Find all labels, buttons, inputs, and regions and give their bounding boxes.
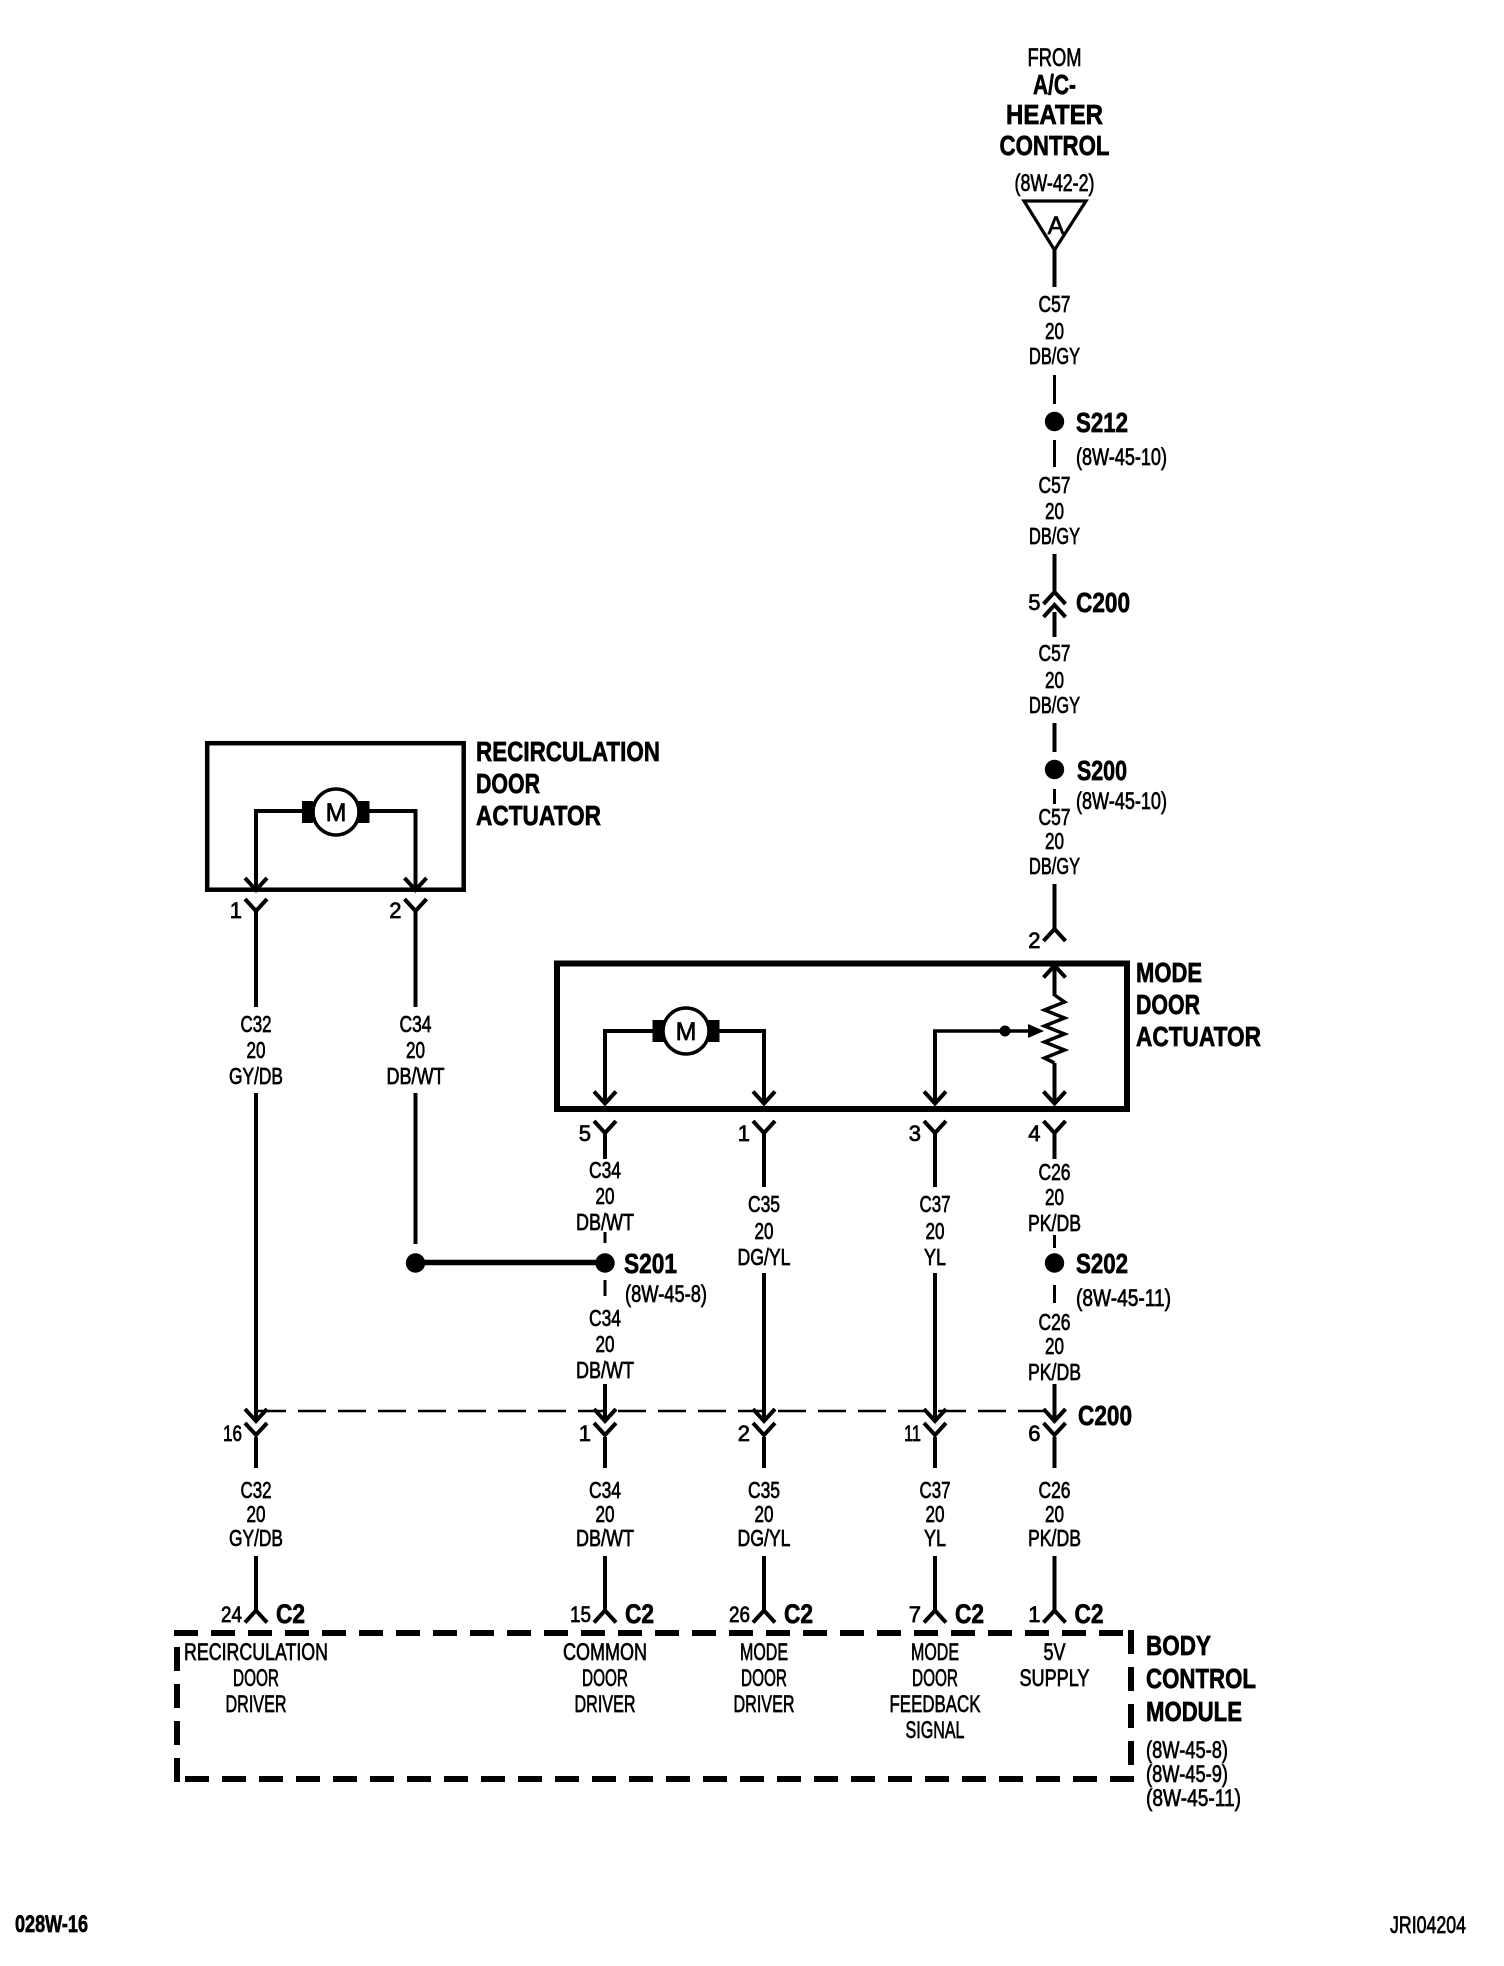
wire C37 down to C200 [933, 1273, 937, 1421]
wire below C200 pin 16 [254, 1437, 258, 1468]
junction dot on wiper [1000, 1026, 1011, 1037]
svg-text:6: 6 [1028, 1421, 1040, 1446]
svg-text:CONTROL: CONTROL [1146, 1663, 1256, 1694]
svg-text:DG/YL: DG/YL [738, 1525, 791, 1551]
svg-text:A: A [1048, 212, 1065, 240]
svg-text:C34: C34 [589, 1157, 621, 1183]
wire C26 down to C200 [1053, 1384, 1057, 1421]
svg-text:YL: YL [924, 1525, 946, 1551]
svg-text:(8W-45-9): (8W-45-9) [1146, 1761, 1228, 1788]
fork stem pin 5 [603, 1133, 607, 1159]
svg-text:RECIRCULATION: RECIRCULATION [476, 736, 660, 767]
junction dot on C34 jumper [406, 1253, 425, 1272]
svg-text:A/C-: A/C- [1033, 69, 1076, 100]
svg-text:DRIVER: DRIVER [575, 1691, 636, 1718]
fork stem pin 4 [1053, 1133, 1057, 1159]
svg-text:1: 1 [230, 898, 242, 923]
svg-text:C57: C57 [1039, 472, 1071, 498]
svg-text:20: 20 [1045, 667, 1064, 693]
svg-text:DB/WT: DB/WT [387, 1063, 445, 1089]
svg-text:SUPPLY: SUPPLY [1020, 1665, 1090, 1692]
connector fork below box pin 2 [405, 899, 427, 911]
svg-text:S200: S200 [1077, 755, 1127, 786]
svg-text:C32: C32 [241, 1011, 272, 1037]
svg-text:C2: C2 [955, 1599, 984, 1629]
connector fork below mode box pin 4 [1044, 1121, 1066, 1133]
svg-text:20: 20 [1045, 828, 1064, 854]
wire down to connector C200 pin 5 [1053, 554, 1057, 592]
svg-text:MODE: MODE [911, 1639, 959, 1666]
wire dash below S200 [1053, 789, 1056, 804]
svg-text:YL: YL [924, 1244, 946, 1270]
motor M1 left brush [302, 801, 313, 823]
motor M2 circle (mode) [663, 1008, 709, 1054]
svg-text:26: 26 [729, 1602, 750, 1627]
connector C200 double chevron pin 6 [1044, 1409, 1066, 1421]
splice S200 [1045, 760, 1064, 779]
wire from triangle A down [1053, 250, 1057, 287]
arrow at box edge pin 4 [1044, 1092, 1066, 1104]
wire pin 2 down inside box [414, 811, 418, 888]
wire pin 1 down inside box [762, 1031, 766, 1101]
svg-text:GY/DB: GY/DB [229, 1525, 283, 1551]
wiper arrowhead [1028, 1024, 1044, 1038]
wire dash above S201 [604, 1232, 607, 1243]
svg-text:(8W-45-11): (8W-45-11) [1146, 1785, 1241, 1812]
svg-text:20: 20 [596, 1501, 615, 1527]
svg-text:2: 2 [738, 1421, 750, 1446]
svg-text:C35: C35 [748, 1477, 780, 1503]
body control module dashed box [174, 1630, 1134, 1636]
connector C2 fork pin 7 [924, 1611, 946, 1623]
connector C200 double chevron pin 2 [753, 1409, 775, 1421]
mode door actuator box [557, 964, 1127, 1110]
svg-text:DRIVER: DRIVER [734, 1691, 795, 1718]
svg-text:PK/DB: PK/DB [1028, 1525, 1081, 1551]
connector C200 pin 5 double chevron [1044, 592, 1066, 604]
svg-text:20: 20 [247, 1501, 266, 1527]
wire below C200 pin 2 [762, 1437, 766, 1468]
wire pin 2 to potentiometer [1053, 966, 1057, 997]
svg-text:3: 3 [909, 1121, 921, 1146]
connector C2 fork pin 26 [753, 1611, 775, 1623]
wire C32 down to BCM C2 [254, 1556, 258, 1611]
splice S201 [595, 1253, 614, 1272]
svg-text:C35: C35 [748, 1191, 780, 1217]
fork stem pin 3 [933, 1133, 937, 1187]
svg-text:DB/WT: DB/WT [576, 1209, 634, 1235]
svg-text:C34: C34 [589, 1305, 621, 1331]
svg-text:S201: S201 [624, 1248, 677, 1279]
svg-text:20: 20 [1045, 498, 1064, 524]
connector C2 fork pin 24 [245, 1611, 267, 1623]
svg-text:GY/DB: GY/DB [229, 1063, 283, 1089]
potentiometer wiper wire [933, 1029, 1030, 1033]
svg-text:(8W-45-8): (8W-45-8) [1146, 1737, 1228, 1764]
svg-text:DB/WT: DB/WT [576, 1525, 634, 1551]
svg-text:20: 20 [1045, 1333, 1064, 1359]
svg-text:CONTROL: CONTROL [1000, 130, 1110, 161]
svg-text:ACTUATOR: ACTUATOR [476, 800, 601, 831]
connector C200 dashed line [258, 1410, 1055, 1413]
off-page connector triangle A [1024, 201, 1086, 250]
svg-text:DB/GY: DB/GY [1029, 523, 1080, 549]
svg-text:5V: 5V [1044, 1639, 1066, 1666]
svg-text:DB/WT: DB/WT [576, 1357, 634, 1383]
svg-text:20: 20 [596, 1183, 615, 1209]
svg-text:C2: C2 [1075, 1599, 1104, 1629]
wire C34 down to junction with S201 jumper [414, 1093, 418, 1244]
wire dash below S201 [604, 1280, 607, 1296]
svg-text:(8W-45-11): (8W-45-11) [1076, 1285, 1171, 1312]
svg-text:ACTUATOR: ACTUATOR [1136, 1021, 1261, 1052]
svg-text:FEEDBACK: FEEDBACK [890, 1691, 981, 1718]
wire dash below S202 [1053, 1285, 1056, 1303]
svg-text:16: 16 [223, 1421, 242, 1446]
svg-text:C200: C200 [1078, 1400, 1132, 1431]
svg-text:(8W-45-10): (8W-45-10) [1076, 444, 1167, 471]
svg-text:20: 20 [1045, 318, 1064, 344]
svg-text:DOOR: DOOR [476, 768, 540, 799]
wire motor M2 right brush to pin 1 [719, 1029, 767, 1033]
motor M2 right brush [709, 1020, 720, 1042]
svg-text:20: 20 [926, 1501, 945, 1527]
svg-text:1: 1 [1028, 1602, 1040, 1627]
svg-text:C57: C57 [1039, 804, 1071, 830]
arrow at box edge pin 5 [594, 1092, 616, 1104]
wire C35 down to C200 [762, 1273, 766, 1421]
svg-text:C32: C32 [241, 1477, 272, 1503]
wire motor M1 right brush to pin 2 [369, 809, 418, 813]
connector C200 double chevron pin 11 [924, 1409, 946, 1421]
svg-text:11: 11 [904, 1421, 921, 1446]
svg-text:(8W-42-2): (8W-42-2) [1015, 170, 1095, 197]
connector C200 double chevron pin 1 [594, 1409, 616, 1421]
svg-text:MODE: MODE [1136, 957, 1202, 988]
svg-text:FROM: FROM [1028, 44, 1082, 72]
wire dash above S202 [1053, 1235, 1056, 1248]
splice S212 [1045, 412, 1064, 431]
jumper wire to S201 [416, 1260, 606, 1266]
fork stem pin 1 [762, 1133, 766, 1187]
connector C2 fork pin 1 [1044, 1611, 1066, 1623]
svg-text:SIGNAL: SIGNAL [906, 1717, 965, 1744]
svg-text:S212: S212 [1076, 407, 1128, 438]
svg-text:C2: C2 [625, 1599, 654, 1629]
motor M1 circle (recirculation) [313, 789, 359, 835]
connector fork below box pin 1 [245, 899, 267, 911]
arrow at box edge pin 2 [405, 878, 427, 890]
wire C35 down to BCM C2 [762, 1556, 766, 1611]
svg-text:5: 5 [1028, 590, 1040, 615]
wire below C200 pin 6 [1053, 1437, 1057, 1468]
wire dash below S212 [1053, 440, 1056, 467]
svg-text:20: 20 [406, 1037, 425, 1063]
svg-text:24: 24 [221, 1602, 242, 1627]
svg-text:DB/GY: DB/GY [1029, 343, 1080, 369]
svg-text:S202: S202 [1076, 1248, 1128, 1279]
svg-text:1: 1 [738, 1121, 750, 1146]
svg-text:2: 2 [389, 898, 401, 923]
svg-text:20: 20 [1045, 1501, 1064, 1527]
svg-text:C26: C26 [1039, 1477, 1071, 1503]
svg-text:DG/YL: DG/YL [738, 1244, 791, 1270]
svg-text:C34: C34 [400, 1011, 432, 1037]
wire below C200 pin 1 [603, 1437, 607, 1468]
connector C200 double chevron pin 16 [245, 1409, 267, 1421]
svg-text:20: 20 [755, 1218, 774, 1244]
svg-text:DRIVER: DRIVER [226, 1691, 287, 1718]
wire C34 down to BCM C2 [603, 1556, 607, 1611]
wire motor M2 left brush to pin 5 [603, 1029, 654, 1033]
svg-text:15: 15 [570, 1602, 591, 1627]
svg-text:M: M [676, 1018, 697, 1046]
svg-text:DB/GY: DB/GY [1029, 853, 1080, 879]
svg-text:C57: C57 [1039, 291, 1071, 317]
svg-text:C26: C26 [1039, 1309, 1071, 1335]
svg-text:JRI04204: JRI04204 [1390, 1912, 1466, 1939]
svg-text:RECIRCULATION: RECIRCULATION [184, 1639, 328, 1666]
svg-text:C200: C200 [1076, 587, 1130, 618]
svg-text:C37: C37 [920, 1191, 951, 1217]
svg-text:20: 20 [755, 1501, 774, 1527]
wire pin 5 down inside box [603, 1031, 607, 1101]
svg-text:HEATER: HEATER [1006, 99, 1103, 130]
motor M2 left brush [653, 1020, 664, 1042]
svg-text:028W-16: 028W-16 [15, 1911, 88, 1938]
wire C26 down to BCM C2 [1053, 1556, 1057, 1611]
arrow at box edge pin 3 [924, 1092, 946, 1104]
arrow at box edge pin 1 [753, 1092, 775, 1104]
svg-text:C57: C57 [1039, 640, 1071, 666]
connector fork below mode box pin 1 [753, 1121, 775, 1133]
svg-text:20: 20 [926, 1218, 945, 1244]
svg-text:(8W-45-10): (8W-45-10) [1076, 788, 1167, 815]
wire below C200 pin 11 [933, 1437, 937, 1468]
arrow at box edge pin 1 [245, 878, 267, 890]
svg-text:DB/GY: DB/GY [1029, 692, 1080, 718]
svg-text:1: 1 [579, 1421, 591, 1446]
svg-text:MODE: MODE [740, 1639, 788, 1666]
svg-text:C34: C34 [589, 1477, 621, 1503]
svg-text:C2: C2 [276, 1599, 305, 1629]
svg-text:C26: C26 [1039, 1159, 1071, 1185]
svg-text:DOOR: DOOR [582, 1665, 628, 1692]
svg-text:2: 2 [1028, 928, 1040, 953]
svg-text:PK/DB: PK/DB [1028, 1210, 1081, 1236]
motor M1 right brush [359, 801, 370, 823]
svg-text:PK/DB: PK/DB [1028, 1359, 1081, 1385]
svg-text:C37: C37 [920, 1477, 951, 1503]
wire down to S200 [1053, 723, 1057, 752]
svg-text:20: 20 [596, 1331, 615, 1357]
svg-text:7: 7 [909, 1602, 921, 1627]
svg-text:DOOR: DOOR [1136, 989, 1200, 1020]
wire motor M1 left brush to pin 1 [254, 809, 303, 813]
svg-text:BODY: BODY [1146, 1630, 1211, 1661]
connector fork below mode box pin 5 [594, 1121, 616, 1133]
svg-text:DOOR: DOOR [233, 1665, 279, 1692]
connector C2 fork pin 15 [594, 1611, 616, 1623]
wire potentiometer bottom to pin 4 [1053, 1063, 1057, 1101]
wire down to mode door actuator pin 2 [1053, 884, 1057, 929]
svg-text:C2: C2 [784, 1599, 813, 1629]
svg-text:5: 5 [579, 1121, 591, 1146]
svg-text:MODULE: MODULE [1146, 1696, 1242, 1727]
svg-text:M: M [326, 799, 347, 827]
connector fork below mode box pin 3 [924, 1121, 946, 1133]
wire pin 1 down inside box [254, 811, 258, 888]
potentiometer resistor zigzag [1045, 995, 1065, 1063]
svg-text:DOOR: DOOR [741, 1665, 787, 1692]
svg-text:(8W-45-8): (8W-45-8) [625, 1281, 707, 1308]
wire dash above S212 [1053, 375, 1056, 404]
svg-text:4: 4 [1028, 1121, 1040, 1146]
connector fork at mode door actuator pin 2 [1044, 929, 1066, 941]
wire C32 down to C200 [254, 1093, 258, 1421]
wire pin 3 down inside box [933, 1031, 937, 1101]
recirculation door actuator box [207, 743, 464, 890]
svg-text:COMMON: COMMON [563, 1639, 647, 1666]
splice S202 [1045, 1253, 1064, 1272]
svg-text:20: 20 [247, 1037, 266, 1063]
svg-text:20: 20 [1045, 1184, 1064, 1210]
wire below C200 pin 5 [1053, 612, 1057, 637]
wire C34 down to C200 [603, 1384, 607, 1421]
arrow at box top pin 2 (inside) [1044, 966, 1066, 978]
wire C37 down to BCM C2 [933, 1556, 937, 1611]
svg-text:DOOR: DOOR [912, 1665, 958, 1692]
